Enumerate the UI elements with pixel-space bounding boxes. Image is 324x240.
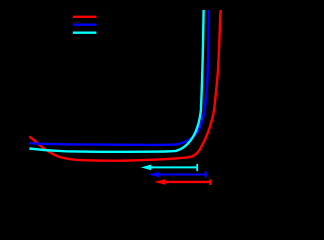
arrow red line — [160, 181, 210, 183]
arrow blue end tick — [205, 171, 207, 178]
arrow cyan end tick — [196, 164, 198, 171]
curve red — [29, 10, 221, 161]
arrow cyan head — [141, 165, 152, 171]
legend sample cyan — [73, 32, 97, 34]
curve cyan — [29, 10, 203, 152]
curve blue — [29, 10, 209, 145]
arrow red head — [154, 179, 165, 185]
arrow blue line — [155, 174, 207, 176]
legend sample blue — [73, 24, 97, 26]
arrow cyan line — [148, 166, 197, 168]
arrow blue head — [148, 172, 159, 178]
legend sample red — [73, 16, 97, 18]
arrow red end tick — [209, 179, 211, 185]
